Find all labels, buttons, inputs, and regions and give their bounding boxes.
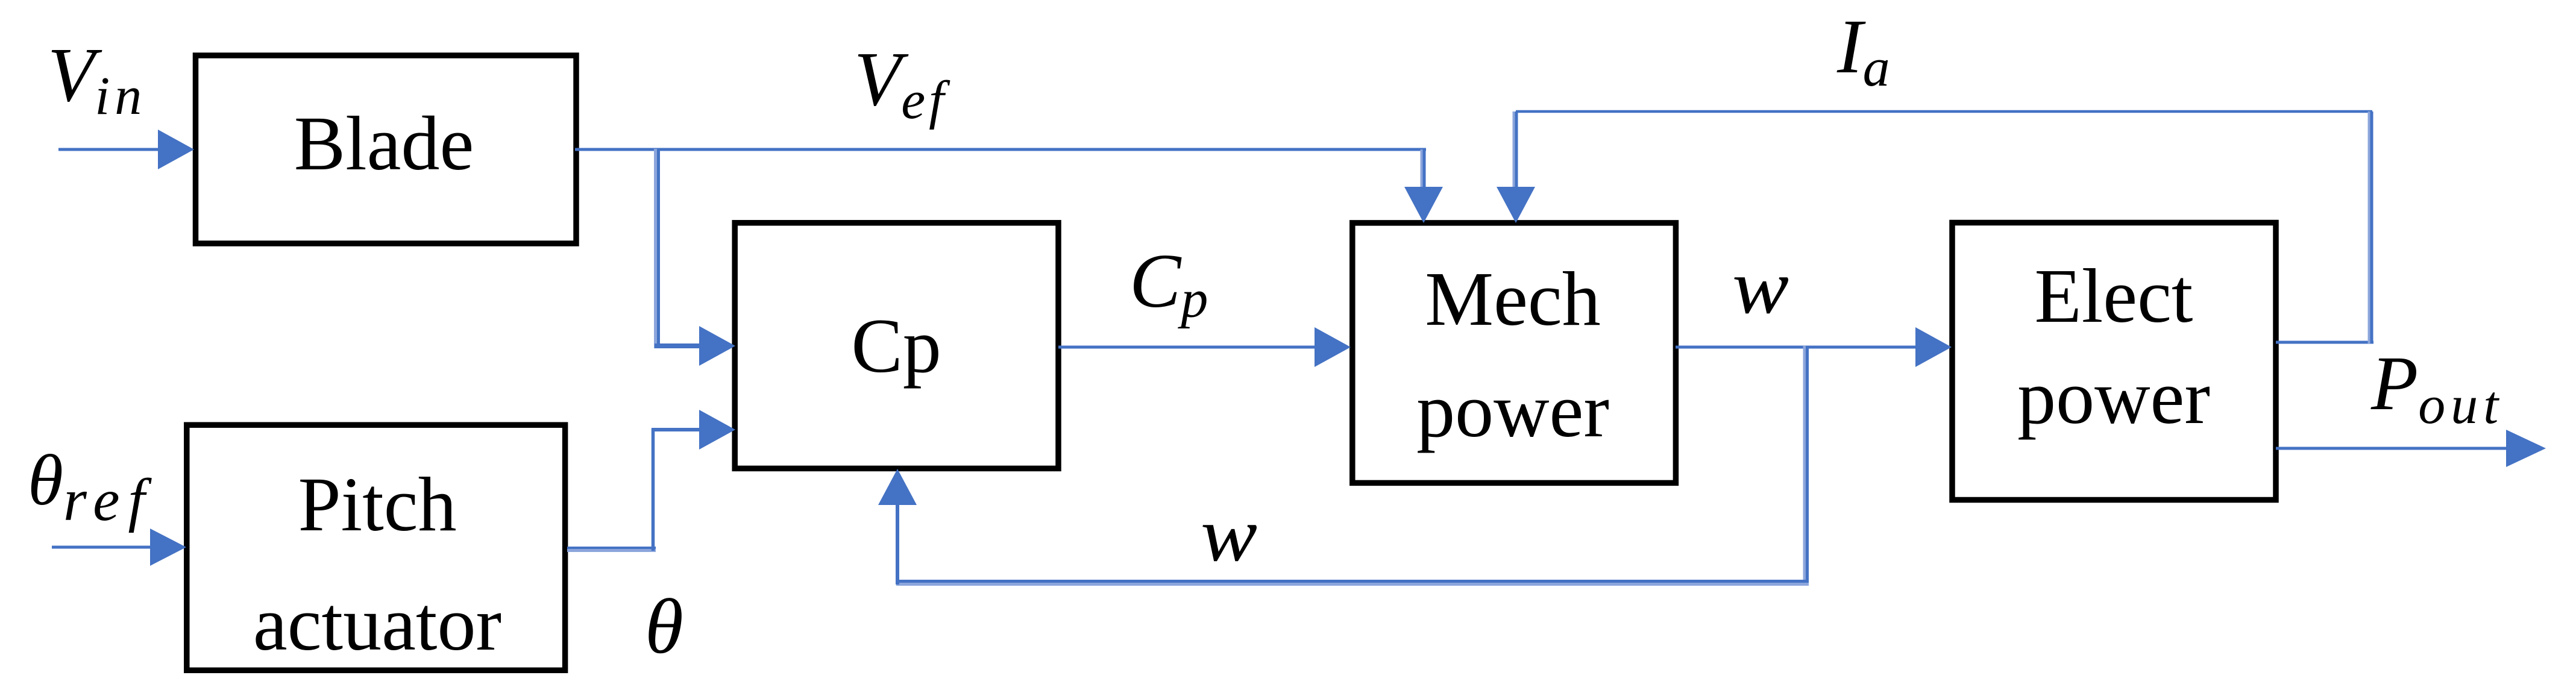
label Cp signal [1129, 238, 1208, 329]
label theta ref [28, 440, 153, 533]
arrowhead w into Cp bottom [878, 469, 917, 505]
wire Vef drop into Mech power [1423, 149, 1424, 189]
arrowhead into Cp input 1 [699, 326, 735, 366]
wire w feedback drop [1806, 346, 1808, 586]
svg-text:Blade: Blade [294, 101, 474, 186]
label w Mech output [1732, 244, 1789, 330]
arrowhead Vef into Mech power [1404, 187, 1443, 223]
svg-text:Elect: Elect [2035, 253, 2193, 339]
wire w feedback rise into Cp [896, 503, 899, 585]
wire Cp output [1058, 346, 1316, 349]
wire Pout output [2276, 447, 2508, 450]
svg-text:power: power [1416, 368, 1609, 453]
arrowhead w into Elect power [1915, 327, 1952, 367]
svg-text:w: w [1732, 244, 1789, 330]
arrowhead Pout [2506, 430, 2546, 467]
wire Vin input [58, 148, 160, 151]
wire Blade output Vef [575, 148, 1426, 151]
arrowhead theta into Cp input 2 [699, 410, 735, 450]
svg-text:Mech: Mech [1425, 256, 1600, 342]
wire theta ref input [52, 546, 152, 549]
wire Ia rise [2370, 111, 2372, 343]
label Vin [48, 32, 146, 126]
block Blade [196, 55, 577, 243]
label Pout [2370, 340, 2504, 435]
arrowhead Cp into Mech power [1315, 327, 1351, 367]
svg-text:w: w [1201, 492, 1257, 577]
wire w feedback bottom [896, 582, 1809, 585]
arrowhead Vin into Blade [158, 130, 194, 169]
svg-text:actuator: actuator [253, 581, 501, 666]
wire Elect power Ia output [2276, 341, 2373, 344]
wire Mech power output w [1676, 346, 1918, 349]
label theta output [645, 583, 683, 670]
arrowhead Ia into Mech power [1497, 187, 1535, 223]
block Mech power [1352, 223, 1676, 483]
wire Ia drop into Mech power [1515, 111, 1516, 189]
wire Pitch actuator output [567, 428, 700, 551]
block Elect power [1952, 223, 2276, 500]
block Cp [735, 223, 1058, 469]
label Ia [1836, 4, 1890, 98]
label Vef [854, 36, 950, 130]
svg-text:Cp: Cp [851, 303, 941, 389]
label w feedback [1201, 492, 1257, 577]
svg-text:Pitch: Pitch [298, 462, 456, 547]
block Pitch actuator [187, 425, 565, 670]
svg-text:power: power [2017, 354, 2210, 440]
svg-text:θ: θ [645, 583, 683, 670]
wire branch down to Cp input 1 [655, 149, 700, 348]
wire Ia feedback top [1516, 110, 2372, 113]
arrowhead theta ref into Pitch actuator [150, 528, 186, 566]
